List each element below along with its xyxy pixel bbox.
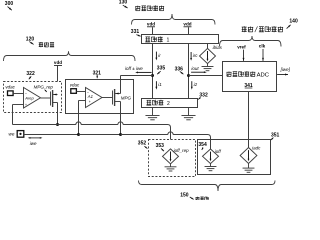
svg-text:vdd: vdd	[147, 22, 155, 27]
svg-text:130: 130	[119, 0, 128, 6]
label 354	[198, 142, 207, 150]
current arrow iwe (bidirectional)	[28, 137, 43, 146]
block clocked dual-slope ADC (钟控双斜率 ADC) 341	[223, 62, 277, 92]
svg-text:we: we	[9, 132, 15, 137]
wire MPG source up to node335 branch	[120, 76, 122, 94]
wire ibias stub	[207, 44, 209, 49]
wire node336 to ADC	[189, 75, 223, 77]
svg-text:clk: clk	[259, 44, 266, 49]
current source ioff	[203, 149, 222, 164]
label 150	[180, 193, 193, 200]
caption current delivery section (电流输送部)	[135, 5, 164, 11]
input vdac (322)	[5, 85, 23, 96]
brace current delivery section	[132, 14, 216, 25]
input vdac (321)	[70, 82, 86, 93]
power vdd (left, current mirror 1)	[147, 22, 155, 27]
svg-text:vdac: vdac	[5, 85, 15, 90]
node 336	[187, 74, 190, 77]
ground below mirror2 right	[181, 108, 195, 120]
wire vdd left stub	[152, 27, 154, 34]
wire ir branch (mirror1 to mirror2 left)	[152, 44, 154, 99]
label 336	[175, 66, 184, 74]
svg-text:+: +	[89, 100, 91, 104]
label ioff ± iwe	[125, 66, 143, 71]
power vdd (right, current mirror 1)	[183, 22, 191, 27]
caption front-end section (前端部)	[39, 42, 54, 47]
svg-text:A1: A1	[87, 94, 93, 99]
node A1 feedback junction	[77, 133, 80, 136]
svg-text:140: 140	[289, 19, 298, 25]
figure label 300	[5, 1, 14, 10]
current source iadc	[240, 145, 261, 163]
label 331	[131, 29, 141, 36]
svg-text:1: 1	[167, 38, 170, 44]
wire node335 to MPG source	[121, 76, 153, 94]
svg-text:ADC: ADC	[257, 73, 270, 79]
wire vdd to MPG_rep source	[57, 66, 59, 95]
block 322 replica branch (dashed)	[4, 82, 62, 113]
label 130	[119, 0, 128, 8]
svg-text:351: 351	[271, 132, 280, 138]
ground below ioff_rep	[165, 164, 177, 171]
output [iwe] arrow	[277, 67, 291, 76]
wire Arep feedback	[13, 105, 24, 125]
svg-text:ibias: ibias	[213, 45, 223, 50]
wire vdd right stub	[188, 27, 190, 34]
svg-text:ioff ± iwe: ioff ± iwe	[125, 66, 143, 71]
pad we	[9, 131, 24, 138]
current arrow irc	[190, 52, 198, 61]
svg-text:331: 331	[131, 29, 140, 35]
svg-text:–: –	[87, 90, 89, 94]
block current mirror 2 (电流镜 2)	[142, 99, 198, 108]
svg-text:vref: vref	[237, 44, 246, 49]
svg-text:300: 300	[5, 1, 14, 7]
brace bias section (bottom)	[139, 181, 276, 192]
wire MPG_rep drain down	[57, 103, 59, 125]
ground below ioff	[205, 164, 217, 171]
wire irc branch (mirror1 to mirror2 right)	[188, 44, 190, 99]
brace front-end section	[4, 51, 136, 61]
svg-text:ioff_rep: ioff_rep	[174, 148, 190, 153]
node 335	[151, 74, 154, 77]
svg-text:+: +	[25, 103, 27, 107]
block 352 replica offset (dashed)	[149, 140, 196, 177]
transistor MPG	[113, 89, 132, 106]
svg-text:i1: i1	[158, 82, 162, 87]
block current mirror 1 (电流镜 1)	[142, 35, 219, 44]
label 335	[157, 66, 166, 75]
wire A1 feedback	[79, 101, 86, 135]
wire A1 output to MPG gate	[102, 97, 113, 99]
svg-text:335: 335	[157, 66, 166, 72]
caption sensing/digitizing section (感测/数字化部)	[242, 26, 283, 32]
svg-text:150: 150	[180, 193, 189, 199]
transistor MPG_rep	[34, 84, 58, 107]
current arrow ir	[155, 52, 161, 61]
wire we line mid	[79, 134, 121, 136]
wire MPG drain down to we line	[120, 102, 122, 135]
op-amp A1	[86, 88, 103, 108]
op-amp Arep	[24, 88, 41, 109]
wire replica line to ioff_rep	[13, 122, 171, 149]
svg-text:irc: irc	[193, 53, 198, 58]
svg-text:MPG: MPG	[121, 95, 132, 100]
wire Arep output to MPG_rep gate	[41, 97, 51, 99]
power vdd (322 branch)	[54, 60, 62, 65]
ground below mirror2 left	[145, 108, 159, 120]
current arrow ioff±iwe (left)	[135, 71, 151, 73]
node MPG_rep drain junction	[56, 123, 59, 126]
current arrow i1	[155, 81, 162, 89]
label 352	[138, 141, 148, 149]
svg-text:MPG_rep: MPG_rep	[34, 84, 54, 89]
wire ADC to iadc	[248, 92, 250, 148]
ground below iadc	[243, 164, 255, 173]
svg-text:iwe: iwe	[30, 141, 37, 146]
svg-text:2: 2	[167, 101, 170, 107]
svg-text:vdd: vdd	[54, 60, 62, 65]
svg-text:322: 322	[26, 71, 35, 77]
svg-text:336: 336	[175, 66, 184, 72]
arrow vref into ADC	[243, 50, 245, 61]
svg-text:Arep: Arep	[24, 95, 34, 100]
current source ioff_rep	[163, 148, 190, 164]
current arrow i2	[191, 81, 198, 89]
arrow clk into ADC	[262, 49, 264, 61]
brace sensing/digitizing section	[220, 36, 282, 47]
signal clk	[259, 44, 266, 49]
label 332	[198, 93, 208, 100]
svg-text:i2: i2	[194, 82, 198, 87]
block 351 bias section	[198, 140, 271, 175]
ground below ibias	[202, 64, 214, 71]
svg-text:ioff: ioff	[215, 149, 222, 154]
svg-text:iadc: iadc	[252, 145, 261, 150]
label 321	[93, 70, 102, 78]
signal vref	[237, 44, 246, 49]
svg-text:vdac: vdac	[70, 82, 80, 87]
wire we line	[24, 134, 79, 136]
svg-text:[iwe]: [iwe]	[280, 67, 291, 72]
block 321 drive branch	[66, 80, 134, 114]
svg-text:353: 353	[156, 143, 165, 149]
label 322	[26, 71, 35, 79]
label 140	[287, 19, 298, 29]
label iout	[191, 66, 199, 71]
svg-text:–: –	[25, 91, 27, 95]
current source ibias	[200, 45, 223, 63]
svg-text:352: 352	[138, 141, 147, 147]
label 353	[156, 143, 165, 151]
wire we line right	[121, 132, 211, 149]
label 120	[26, 37, 35, 45]
current arrow iout	[191, 71, 207, 73]
label 351	[271, 132, 280, 140]
svg-text:iout: iout	[191, 66, 199, 71]
caption bias section (偏置部)	[196, 197, 209, 201]
node MPG drain junction	[119, 133, 122, 136]
svg-text:vdd: vdd	[183, 22, 191, 27]
